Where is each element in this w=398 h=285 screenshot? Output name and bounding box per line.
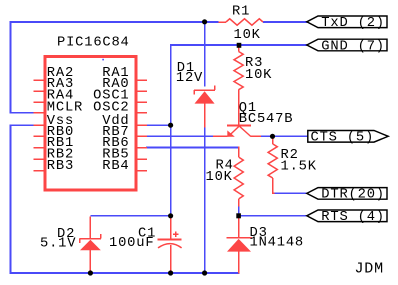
svg-text:TxD (2): TxD (2) — [321, 15, 385, 31]
node TxD/D1 junction — [202, 19, 207, 24]
op-amp substitute: IC U1 PIC16C84 body — [45, 57, 136, 191]
connector DTR(20) — [307, 188, 387, 200]
IC pin stub right row OSC1 — [137, 101, 147, 103]
transistor Q1 base bar — [227, 124, 251, 126]
svg-text:RTS (4): RTS (4) — [321, 209, 385, 225]
svg-text:10K: 10K — [234, 28, 261, 43]
connector TxD (2) — [307, 16, 387, 28]
D3 top red lead from RTS junction — [238, 217, 240, 238]
wire: MCLR net left vertical — [10, 21, 12, 113]
svg-text:DTR(20): DTR(20) — [321, 187, 385, 203]
IC pin stub left row RA3 — [34, 90, 45, 92]
stray blue dot artifact below chip top edge — [102, 59, 104, 61]
D2 anode lead to rail — [89, 250, 91, 273]
resistor R1 — [219, 21, 226, 23]
IC pin stub left row Vss — [34, 124, 45, 126]
IC pin stub right row RB7 — [137, 135, 147, 137]
wire: R4/D3 short blue segment above RTS junction — [238, 206, 240, 217]
wire: TxD net right of R1 to connector — [263, 21, 308, 23]
resistor R4 top lead from RB6 wire corner — [238, 147, 240, 157]
svg-text:1N4148: 1N4148 — [250, 236, 304, 251]
svg-text:JDM: JDM — [355, 261, 384, 278]
node GND/R3 junction (square) — [237, 43, 242, 48]
wire: collector to CTS connector — [261, 135, 309, 137]
resistor R2 — [272, 137, 274, 144]
wire: TxD net top horizontal — [10, 21, 219, 23]
wire: Vss horizontal from pin — [10, 124, 34, 126]
node D2/rail junction — [88, 270, 93, 275]
IC pin stub left row RA4 — [34, 101, 45, 103]
wire: D1 column upper vertical from TxD junction — [204, 21, 206, 86]
wire: GND net horizontal to connector — [170, 44, 308, 46]
R4 bottom lead — [238, 199, 240, 207]
svg-text:10K: 10K — [245, 68, 272, 83]
transistor Q1 collector diagonal — [240, 126, 251, 136]
svg-text:12V: 12V — [176, 71, 203, 86]
IC pin stub right row RB5 — [137, 158, 147, 160]
IC pin stub right row RB6 — [137, 147, 147, 149]
transistor Q1 emitter arrowhead — [227, 130, 235, 136]
wire: R2 bottom to DTR connector — [274, 192, 309, 194]
wire: GND/Vdd column vertical upper (x=170.6) — [170, 44, 172, 216]
svg-text:PIC16C84: PIC16C84 — [57, 36, 130, 51]
node Vdd junction — [168, 123, 173, 128]
node CTS/R2 junction — [270, 134, 275, 139]
R3 lead down to Q1 base — [238, 90, 240, 126]
IC pin stub left row MCLR — [34, 112, 45, 114]
D2 top red lead from branch wire — [89, 217, 91, 239]
wire: RTS net horizontal to connector — [239, 215, 309, 217]
wire: D1 column lower vertical to ground rail — [204, 127, 206, 274]
wire: Vdd pin wire to column — [146, 124, 171, 126]
capacitor C1 top plate — [158, 238, 182, 240]
wire: RB7 / emitter net horizontal — [146, 135, 213, 137]
svg-text:BC547B: BC547B — [239, 112, 293, 127]
diode D2 triangle — [80, 240, 101, 250]
connector GND (7) — [307, 39, 387, 51]
node D1/rail junction — [202, 270, 207, 275]
wire: Vss net left vertical down to ground rail — [10, 124, 12, 273]
D1 anode red lead — [204, 104, 206, 128]
connector RTS (4) — [307, 210, 387, 222]
svg-text:RB3: RB3 — [47, 159, 74, 174]
svg-text:5.1V: 5.1V — [40, 237, 76, 252]
node D2/C1 branch junction — [168, 213, 173, 218]
wire: collector red lead — [250, 135, 261, 137]
wire: bottom ground rail — [10, 272, 240, 274]
IC pin stub left row RB3 — [34, 170, 45, 172]
IC pin stub right row RB4 — [137, 170, 147, 172]
IC pin stub left row RA2 — [34, 79, 45, 81]
C1 top red lead — [170, 217, 172, 240]
wire: D2 branch horizontal from C1 column — [90, 215, 171, 217]
svg-text:1.5K: 1.5K — [281, 160, 317, 175]
capacitor C1 bottom curved plate — [158, 244, 182, 248]
IC pin stub right row Vdd — [137, 124, 147, 126]
transistor Q1 emitter diagonal — [228, 126, 239, 136]
IC pin stub right row OSC2 — [137, 112, 147, 114]
node C1/rail junction — [168, 270, 173, 275]
R2 lead down to DTR wire corner — [272, 178, 274, 194]
D3 anode lead to rail — [238, 252, 240, 274]
node RTS/R4/D3 junction (square) — [236, 213, 241, 218]
diode D2 5.1V zener cathode bar — [80, 238, 102, 240]
diode D1 triangle — [195, 91, 215, 103]
IC pin stub left row RB0 — [34, 135, 45, 137]
IC pin stub left row RB1 — [34, 147, 45, 149]
svg-text:100uF: 100uF — [109, 236, 154, 251]
diode D3 triangle — [227, 239, 251, 252]
C1 polarity plus sign — [173, 233, 179, 235]
IC pin stub right row RA1 — [137, 79, 147, 81]
wire: MCLR horizontal into pin — [10, 112, 34, 114]
IC pin stub right row RA0 — [137, 90, 147, 92]
svg-text:10K: 10K — [206, 170, 233, 185]
resistor R3 — [238, 48, 240, 52]
connector CTS (5) output flag — [308, 131, 388, 143]
C1 bottom lead to rail — [170, 245, 172, 274]
wire: RB6 net horizontal — [146, 147, 239, 149]
wire: emitter red lead — [213, 135, 228, 137]
svg-text:GND (7): GND (7) — [321, 38, 385, 54]
diode D1 12V zener cathode bar — [194, 89, 215, 91]
IC pin stub left row RB2 — [34, 158, 45, 160]
svg-text:CTS (5): CTS (5) — [311, 130, 375, 146]
diode D3 1N4148 cathode bar — [227, 237, 253, 239]
resistor R4 — [234, 157, 243, 199]
svg-text:RB4: RB4 — [102, 159, 129, 174]
svg-text:R1: R1 — [232, 5, 250, 20]
